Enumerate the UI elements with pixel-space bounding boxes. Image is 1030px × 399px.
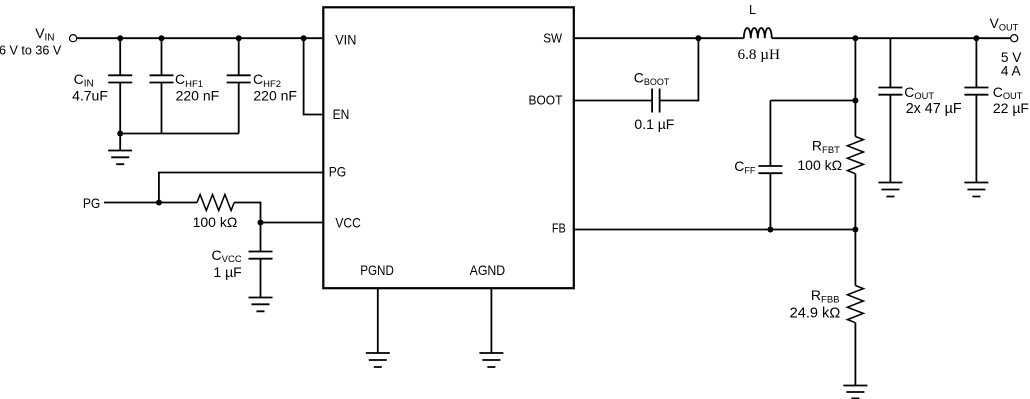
wire RFBT bottom (854, 174, 856, 230)
wire CHF2 top (238, 38, 240, 75)
wire AGND (490, 288, 492, 353)
wire input ground bus (120, 133, 239, 135)
resistor RFBT (847, 137, 863, 174)
svg-text:1 µF: 1 µF (213, 264, 241, 280)
wire EN branch (304, 38, 323, 114)
svg-text:2x 47 µF: 2x 47 µF (906, 101, 962, 117)
ground under CIN (108, 151, 132, 165)
svg-text:CFF: CFF (734, 158, 756, 175)
wire CIN bottom (119, 83, 121, 151)
svg-text:VIN: VIN (335, 32, 356, 47)
wire CBOOT to SW node (660, 38, 699, 100)
svg-text:CVCC: CVCC (212, 247, 242, 265)
ground under CVCC (249, 298, 273, 312)
wire CIN top (119, 38, 121, 75)
svg-text:4.7uF: 4.7uF (72, 87, 108, 103)
ground under COUT2 (964, 183, 988, 197)
svg-text:6.8 µH: 6.8 µH (738, 46, 781, 63)
svg-text:FB: FB (552, 221, 566, 236)
wire CHF2 bottom (238, 83, 240, 134)
wire COUT2 top (975, 38, 977, 87)
svg-text:COUT: COUT (904, 84, 934, 101)
wire CHF1 bottom (161, 83, 163, 134)
svg-text:24.9 kΩ: 24.9 kΩ (790, 306, 841, 322)
svg-text:0.1 µF: 0.1 µF (634, 116, 674, 132)
svg-text:VCC: VCC (335, 215, 360, 231)
svg-text:100 kΩ: 100 kΩ (797, 157, 842, 173)
wire CHF1 top (161, 38, 163, 75)
ground under COUT1 (878, 183, 902, 197)
node junction CHF1/VIN (159, 35, 165, 41)
wire COUT1 bottom (889, 95, 891, 183)
node junction VCC (258, 220, 264, 226)
svg-text:PGND: PGND (360, 263, 394, 278)
wire FB net (574, 229, 856, 231)
wire PG to pin (159, 173, 323, 203)
terminal VIN input port (70, 35, 77, 42)
svg-text:VOUT: VOUT (990, 15, 1019, 32)
svg-text:L: L (749, 3, 756, 17)
svg-text:PG: PG (83, 195, 100, 211)
wire PG net (104, 202, 197, 204)
wire COUT2 bottom (975, 95, 977, 183)
svg-text:RFBB: RFBB (811, 287, 840, 305)
capacitor CIN (108, 75, 132, 82)
svg-text:AGND: AGND (470, 262, 506, 278)
node junction RFBT/VOUT (852, 35, 858, 41)
capacitor CFF (758, 166, 782, 173)
wire RFBB top (854, 230, 856, 286)
ground AGND (479, 353, 503, 367)
wire CFF lower (769, 173, 771, 229)
node junction input ground (117, 131, 123, 137)
svg-text:22 µF: 22 µF (993, 100, 1029, 116)
svg-text:EN: EN (333, 106, 350, 122)
node junction CHF2/VIN (236, 35, 242, 41)
node junction CFF top (852, 98, 858, 104)
node junction FB/RFBB (852, 227, 858, 233)
wire PGND (377, 288, 379, 353)
capacitor CHF1 (150, 75, 174, 82)
svg-text:BOOT: BOOT (529, 93, 563, 108)
capacitor CBOOT (652, 89, 660, 113)
node junction SW (695, 35, 701, 41)
svg-text:RFBT: RFBT (812, 137, 840, 155)
wire CVCC top (260, 223, 262, 252)
wire VOUT rail (772, 37, 1011, 39)
svg-text:4 A: 4 A (1001, 63, 1022, 78)
wire resistor to VCC pin (234, 203, 323, 223)
resistor RFBB (847, 286, 863, 323)
capacitor COUT2 (964, 88, 988, 95)
wire RFBT top (854, 38, 856, 136)
svg-text:220 nF: 220 nF (253, 87, 297, 103)
capacitor COUT1 (878, 88, 902, 95)
node junction CIN/VIN (117, 35, 123, 41)
op-amp U1 IC body (323, 7, 574, 288)
wire RFBB bottom (854, 323, 856, 386)
resistor RPG 100k (197, 195, 234, 211)
node junction CFF/FB (767, 227, 773, 233)
wire CFF upper (769, 101, 771, 167)
wire BOOT pin (574, 100, 652, 102)
svg-text:6 V to 36 V: 6 V to 36 V (0, 44, 62, 58)
svg-text:COUT: COUT (993, 84, 1023, 101)
wire VIN rail (77, 37, 322, 39)
terminal VOUT output port (1011, 35, 1018, 42)
capacitor CVCC (249, 252, 273, 259)
ground PGND (366, 353, 390, 367)
wire COUT1 top (889, 38, 891, 87)
svg-text:PG: PG (329, 164, 346, 180)
ground under RFBB (843, 386, 867, 399)
svg-text:VIN: VIN (35, 25, 54, 43)
node junction EN/VIN (301, 35, 307, 41)
svg-text:220 nF: 220 nF (176, 87, 220, 103)
wire CFF top link (770, 100, 855, 102)
node junction PG (156, 200, 162, 206)
capacitor CHF2 (227, 75, 251, 82)
inductor L (744, 28, 772, 38)
wire CVCC bottom (260, 259, 262, 298)
wire SW to node (574, 37, 744, 39)
node junction VOUT/COUT2 (973, 35, 979, 41)
svg-text:CBOOT: CBOOT (634, 70, 670, 88)
svg-text:SW: SW (543, 31, 562, 46)
svg-text:100 kΩ: 100 kΩ (193, 214, 238, 230)
